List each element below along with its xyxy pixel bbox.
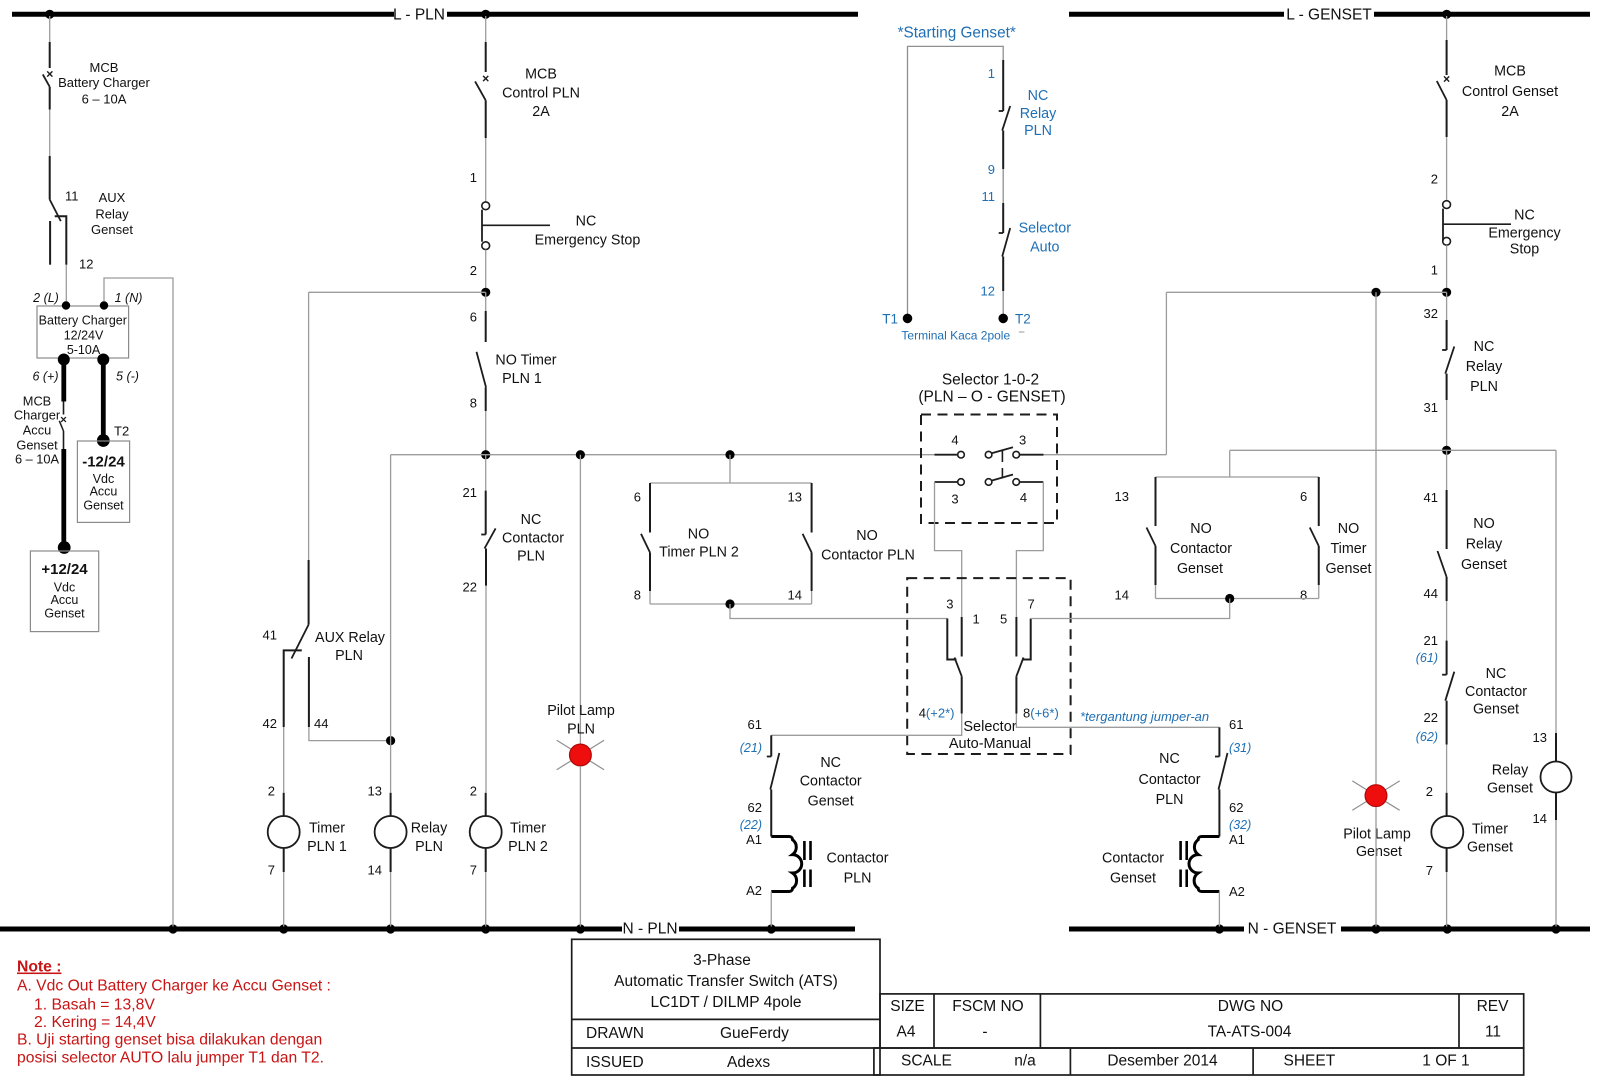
coil Relay Genset	[1555, 733, 1557, 762]
terminal circle row2 left pin 3	[958, 479, 965, 486]
svg-text:3: 3	[946, 597, 953, 612]
svg-text:PLN 2: PLN 2	[508, 839, 548, 855]
svg-text:32: 32	[1424, 306, 1438, 321]
svg-text:13: 13	[1533, 730, 1547, 745]
svg-text:Selector: Selector	[1019, 221, 1072, 237]
wire interconnect y292 to AUX Relay PLN	[309, 291, 486, 293]
wire NC Relay PLN genset to junction y450	[1446, 400, 1448, 450]
wire genset pair right lower stub	[1318, 585, 1320, 599]
node terminal dot +12/24	[58, 541, 71, 554]
svg-text:PLN: PLN	[517, 549, 545, 565]
svg-text:Battery Charger: Battery Charger	[58, 75, 150, 90]
wire selector row2 right lead	[1019, 481, 1043, 483]
svg-text:Stop: Stop	[1510, 242, 1539, 258]
contact NC Relay PLN genset 32-31	[1446, 320, 1448, 350]
svg-text:Contactor: Contactor	[1139, 772, 1201, 788]
coil Timer Genset	[1446, 793, 1448, 816]
svg-text:14: 14	[1533, 811, 1547, 826]
wire relay genset branch from y450	[1555, 450, 1557, 733]
svg-text:Selector 1-0-2: Selector 1-0-2	[942, 372, 1039, 389]
wire Contactor Genset A2 to N-GENSET bus	[1218, 892, 1220, 927]
wire genset pair left lower stub	[1155, 585, 1157, 599]
node dot N-GENSET / Pilot Lamp Genset	[1371, 924, 1380, 933]
svg-text:2A: 2A	[1501, 104, 1519, 120]
wire AUX Relay PLN common down	[308, 292, 310, 560]
svg-text:(31): (31)	[1229, 741, 1251, 755]
svg-text:Genset: Genset	[91, 222, 133, 237]
wire Relay PLN to N-PLN bus	[390, 872, 392, 927]
svg-text:ISSUED: ISSUED	[586, 1054, 644, 1071]
node dot N-PLN / battery charger neutral	[168, 924, 177, 933]
svg-text:+12/24: +12/24	[41, 561, 88, 578]
svg-text:Accu: Accu	[23, 423, 51, 438]
svg-text:Emergency: Emergency	[1488, 226, 1561, 242]
svg-text:Genset: Genset	[1356, 844, 1402, 860]
svg-text:2: 2	[470, 263, 477, 278]
wire NO Timer PLN 1 to junction y455	[485, 411, 487, 455]
contact NO Timer Genset pair	[1318, 477, 1320, 526]
svg-text:11: 11	[65, 188, 79, 203]
wire Pilot Lamp PLN to N-PLN bus	[579, 766, 581, 927]
svg-text:1 OF 1: 1 OF 1	[1422, 1053, 1469, 1070]
node dot N-PLN / Contactor PLN coil	[767, 924, 776, 933]
svg-text:2: 2	[470, 784, 477, 799]
svg-text:Contactor: Contactor	[1170, 541, 1232, 557]
svg-text:PLN 1: PLN 1	[502, 371, 542, 387]
svg-text:Contactor: Contactor	[800, 774, 862, 790]
node junction dot pair bottom	[725, 599, 734, 608]
svg-text:61: 61	[748, 717, 762, 732]
component box Battery Charger 12/24V 5-10A	[37, 306, 129, 358]
wire Emergency Stop Genset to junction	[1446, 245, 1448, 292]
titleblock main box	[572, 939, 880, 1075]
lamp Pilot Lamp PLN	[557, 740, 604, 769]
wire drop to NO Contactor Genset pair box	[1229, 450, 1231, 477]
wire pair box right lower stub	[811, 591, 813, 604]
svg-text:*Starting Genset*: *Starting Genset*	[898, 25, 1016, 42]
wire L-PLN bus left segment	[12, 12, 394, 17]
svg-text:Relay: Relay	[1466, 359, 1503, 375]
wire selector row2 left lead	[935, 481, 958, 483]
wire junction to NO Timer PLN 1	[485, 292, 487, 311]
wire selector row2 right exit down-jog	[1016, 482, 1043, 619]
coil Contactor PLN	[771, 837, 801, 892]
svg-text:Contactor: Contactor	[827, 851, 889, 867]
svg-text:1: 1	[973, 612, 980, 627]
wire Emergency Stop to junction	[485, 250, 487, 293]
node terminal T1	[903, 314, 913, 324]
node dot N-GENSET / Relay Genset	[1551, 924, 1560, 933]
svg-text:12: 12	[79, 257, 93, 272]
svg-text:AUX: AUX	[99, 190, 126, 205]
svg-text:PLN: PLN	[1156, 792, 1184, 808]
svg-text:FSCM NO: FSCM NO	[952, 998, 1023, 1015]
contact NO Relay Genset 41-44	[1446, 490, 1448, 549]
svg-text:Genset: Genset	[16, 438, 58, 453]
svg-text:Auto: Auto	[1030, 240, 1059, 256]
svg-text:Genset: Genset	[1473, 702, 1519, 718]
svg-text:MCB: MCB	[1494, 64, 1526, 80]
svg-text:T2: T2	[114, 424, 129, 439]
node junction dot genset line y292	[1442, 288, 1451, 297]
svg-text:3: 3	[951, 492, 958, 507]
wire horizontal y455 from Relay PLN branch to Selector 1-0-2	[391, 454, 935, 456]
svg-text:PLN 1: PLN 1	[307, 839, 347, 855]
svg-text:A1: A1	[1229, 832, 1245, 847]
wire N-GENSET bus left segment	[1069, 927, 1244, 932]
svg-text:A1: A1	[746, 832, 762, 847]
svg-text:Battery Charger: Battery Charger	[39, 314, 127, 328]
wire between starting contacts	[1002, 169, 1004, 203]
svg-text:11: 11	[982, 189, 996, 204]
wire Battery Charger 1(N) to N-PLN bus	[104, 278, 173, 927]
node junction dot y455 / NO Timer PLN 2 pair	[725, 450, 734, 459]
svg-text:Control Genset: Control Genset	[1462, 84, 1558, 100]
svg-text:Genset: Genset	[1461, 557, 1507, 573]
svg-text:4: 4	[951, 433, 958, 448]
svg-text:13: 13	[1115, 489, 1129, 504]
svg-text:(21): (21)	[740, 741, 762, 755]
node dot N-PLN / Relay PLN	[386, 924, 395, 933]
contact NO Contactor PLN	[811, 483, 813, 533]
svg-text:2: 2	[1431, 172, 1438, 187]
svg-text:6: 6	[1300, 489, 1307, 504]
contact NC Contactor Genset 21-22 main	[1446, 641, 1448, 675]
svg-text:Accu: Accu	[51, 593, 79, 607]
svg-text:SIZE: SIZE	[890, 998, 924, 1015]
svg-text:Contactor: Contactor	[502, 531, 564, 547]
svg-text:12: 12	[981, 284, 995, 299]
svg-text:NO: NO	[1190, 521, 1211, 537]
wire pilot lamp genset branch upper	[1375, 292, 1377, 784]
node dot N-PLN / Pilot Lamp PLN	[576, 924, 585, 933]
node dot N-GENSET / Timer Genset	[1443, 924, 1452, 933]
svg-text:NC: NC	[1159, 751, 1180, 767]
mechanical link selector	[1001, 451, 1003, 462]
wire 44 to Relay PLN branch	[309, 727, 391, 741]
svg-text:NC: NC	[1486, 666, 1507, 682]
svg-text:Relay: Relay	[1466, 537, 1503, 553]
svg-text:NC: NC	[820, 755, 841, 771]
svg-text:PLN: PLN	[567, 722, 595, 738]
contact NO Timer PLN 1	[485, 311, 487, 342]
svg-text:21: 21	[1424, 633, 1438, 648]
titleblock right header box	[880, 994, 1524, 1048]
svg-text:Relay: Relay	[1020, 106, 1057, 122]
svg-text:6 (+): 6 (+)	[32, 370, 58, 384]
svg-text:SHEET: SHEET	[1284, 1053, 1336, 1070]
svg-text:8: 8	[1300, 588, 1307, 603]
svg-text:Accu: Accu	[90, 485, 118, 499]
svg-text:(22): (22)	[740, 818, 762, 832]
svg-text:44: 44	[314, 716, 328, 731]
wire N-PLN bus right segment	[679, 927, 855, 932]
svg-text:TA-ATS-004: TA-ATS-004	[1208, 1024, 1292, 1041]
breaker MCB Control Genset 2A	[1446, 40, 1448, 75]
wire thick battery positive 6(+) down	[61, 360, 66, 402]
node junction dot PLN line / horizontal wire y455	[481, 450, 490, 459]
wire MCB Control PLN to Emergency Stop	[485, 138, 487, 202]
wire Pilot Lamp PLN branch upper	[579, 455, 581, 744]
wire junction to NO Relay Genset	[1446, 450, 1448, 490]
contact Selector Auto-Manual right 7-8	[1022, 619, 1031, 660]
svg-text:DWG NO: DWG NO	[1218, 998, 1283, 1015]
node junction dot 44 / Relay PLN branch	[386, 736, 395, 745]
wire AUX Relay Genset to Battery Charger 2(L)	[65, 265, 67, 302]
svg-text:3-Phase: 3-Phase	[693, 952, 751, 969]
wire thick battery negative 5(-) to T2	[101, 360, 106, 441]
contact NO Contactor Genset pair	[1155, 477, 1157, 526]
svg-text:62: 62	[1229, 800, 1243, 815]
svg-text:NC: NC	[1474, 339, 1495, 355]
wire y450 right interconnect	[1230, 449, 1556, 451]
svg-text:AUX Relay: AUX Relay	[315, 630, 386, 646]
svg-text:4: 4	[1020, 490, 1027, 505]
svg-text:(61): (61)	[1416, 651, 1438, 665]
svg-text:14: 14	[788, 588, 802, 603]
contact Selector Auto-Manual left 3-4	[947, 619, 956, 660]
wire Contactor PLN A2 to N-PLN bus	[770, 892, 772, 927]
svg-text:Adexs: Adexs	[727, 1054, 770, 1071]
wire Timer PLN 2 to N-PLN bus	[485, 872, 487, 927]
selector box Selector 1-0-2 dashed	[921, 415, 1057, 524]
svg-text:22: 22	[1424, 710, 1438, 725]
wire genset pair bottom to selector pin 7	[1031, 599, 1230, 619]
wire genset pair box top edge	[1156, 476, 1319, 478]
svg-text:NC: NC	[521, 512, 542, 528]
svg-text:6 – 10A: 6 – 10A	[82, 92, 127, 107]
svg-text:2: 2	[1426, 784, 1433, 799]
svg-text:1. Basah = 13,8V: 1. Basah = 13,8V	[34, 997, 155, 1014]
svg-text:7: 7	[1028, 597, 1035, 612]
svg-text:8(+6*): 8(+6*)	[1023, 706, 1059, 721]
wire from L-PLN bus to MCB Battery Charger	[49, 16, 51, 42]
svg-text:B. Uji starting genset bisa di: B. Uji starting genset bisa dilakukan de…	[17, 1032, 322, 1049]
contact AUX Relay Genset 11-12	[49, 156, 51, 200]
svg-text:Genset: Genset	[1325, 561, 1371, 577]
node junction dot y455 / Pilot Lamp PLN	[576, 450, 585, 459]
node dot N-GENSET / Contactor Genset coil	[1215, 924, 1224, 933]
svg-text:PLN: PLN	[1470, 379, 1498, 395]
svg-text:Auto-Manual: Auto-Manual	[949, 736, 1031, 752]
pushbutton NC Emergency Stop Genset	[1443, 201, 1451, 209]
svg-text:(62): (62)	[1416, 730, 1438, 744]
svg-text:1: 1	[470, 170, 477, 185]
selector box Selector Auto-Manual dashed	[907, 578, 1070, 754]
wire drop junction y455 to pair box	[729, 455, 731, 483]
wire pilot lamp genset to N-GENSET bus	[1375, 807, 1377, 927]
svg-text:T1: T1	[882, 312, 898, 327]
coil Timer PLN 2	[485, 793, 487, 816]
svg-text:14: 14	[368, 863, 382, 878]
svg-text:7: 7	[268, 863, 275, 878]
wire MCB Battery Charger to AUX Relay Genset	[49, 110, 51, 157]
terminal circle row1 left pin 4	[958, 451, 965, 458]
svg-text:Timer: Timer	[309, 821, 345, 837]
coil Relay PLN	[390, 793, 392, 816]
svg-text:PLN: PLN	[844, 871, 872, 887]
svg-text:Genset: Genset	[808, 794, 854, 810]
switch selector row1 common	[985, 451, 992, 458]
svg-text:2. Kering = 14,4V: 2. Kering = 14,4V	[34, 1014, 156, 1031]
svg-text:Genset: Genset	[1467, 840, 1513, 856]
svg-text:NO: NO	[1338, 521, 1359, 537]
svg-text:Automatic Transfer Switch (ATS: Automatic Transfer Switch (ATS)	[614, 973, 838, 990]
wire NC Contactor Genset to Timer Genset coil	[1446, 745, 1448, 793]
wire pair box bottom edge	[650, 603, 812, 605]
svg-text:posisi selector AUTO lalu jump: posisi selector AUTO lalu jumper T1 dan …	[17, 1050, 324, 1067]
wire Selector Auto-Manual left output to NC Contactor Genset branch	[771, 714, 961, 736]
svg-text:NO: NO	[1473, 516, 1494, 532]
wire vertical link x1166	[1165, 292, 1167, 454]
svg-text:Timer: Timer	[1472, 822, 1508, 838]
wire selector row1 right lead	[1019, 454, 1043, 456]
svg-text:PLN: PLN	[335, 648, 363, 664]
svg-text:MCB: MCB	[23, 394, 51, 409]
svg-text:Genset: Genset	[1110, 871, 1156, 887]
svg-text:5: 5	[1000, 612, 1007, 627]
contact NC Relay PLN starting	[1002, 60, 1004, 111]
contact AUX Relay PLN 41-42-44	[308, 560, 310, 625]
svg-text:1: 1	[988, 66, 995, 81]
coil Timer PLN 1	[283, 793, 285, 816]
wire selector row1 output right	[1044, 454, 1167, 456]
svg-text:62: 62	[748, 800, 762, 815]
wire starting genset loop	[908, 46, 1004, 314]
wire N-PLN bus left segment	[0, 927, 622, 932]
svg-text:Pilot Lamp: Pilot Lamp	[1343, 827, 1411, 843]
svg-text:8: 8	[634, 588, 641, 603]
svg-text:SCALE: SCALE	[901, 1053, 952, 1070]
node junction dot genset line y450	[1442, 446, 1451, 455]
wire to T2	[1002, 291, 1004, 314]
svg-text:22: 22	[463, 580, 477, 595]
svg-text:6 – 10A: 6 – 10A	[15, 452, 60, 467]
svg-text:LC1DT / DILMP 4pole: LC1DT / DILMP 4pole	[650, 994, 801, 1011]
wire MCB Control Genset to Emergency Stop Genset	[1446, 137, 1448, 201]
titleblock bottom row box	[874, 1048, 1524, 1075]
svg-text:44: 44	[1424, 586, 1438, 601]
svg-text:14: 14	[1115, 588, 1129, 603]
svg-text:5-10A: 5-10A	[67, 343, 101, 357]
breaker MCB Battery Charger 6-10A	[49, 42, 51, 68]
contact NC Contactor PLN 61-62 right	[1218, 727, 1220, 756]
svg-text:NC: NC	[1514, 208, 1535, 224]
svg-text:2A: 2A	[532, 104, 550, 120]
svg-text:A4: A4	[897, 1024, 916, 1041]
node terminal dot T2	[97, 434, 110, 447]
svg-text:Genset: Genset	[1487, 781, 1533, 797]
svg-text:NC: NC	[1028, 88, 1049, 104]
svg-text:13: 13	[368, 784, 382, 799]
svg-text:3: 3	[1019, 433, 1026, 448]
svg-text:Genset: Genset	[44, 607, 85, 621]
wire Selector Auto-Manual right output to NC Contactor PLN branch	[1016, 714, 1219, 728]
svg-text:Relay: Relay	[95, 207, 129, 222]
contact NO Timer PLN 2	[649, 483, 651, 533]
wire L-GENSET bus to MCB Control Genset	[1446, 16, 1448, 40]
svg-text:Relay: Relay	[411, 821, 448, 837]
lamp Pilot Lamp Genset	[1352, 781, 1399, 810]
contact NC Contactor Genset 61-62	[770, 735, 772, 756]
svg-text:MCB: MCB	[90, 60, 119, 75]
wire Timer PLN 1 to N-PLN bus	[283, 872, 285, 927]
wire N-GENSET bus right segment	[1341, 927, 1590, 932]
svg-text:T2: T2	[1015, 312, 1031, 327]
wire thick battery positive to +12/24 terminal	[61, 449, 66, 548]
wire selector row1 left lead	[935, 454, 958, 456]
svg-text:Desember 2014: Desember 2014	[1107, 1053, 1218, 1070]
svg-text:1 (N): 1 (N)	[115, 291, 143, 305]
switch selector row2 common	[985, 479, 992, 486]
svg-text:Genset: Genset	[83, 499, 124, 513]
svg-text:8: 8	[470, 396, 477, 411]
svg-text:Timer PLN 2: Timer PLN 2	[659, 545, 739, 561]
wire Timer Genset to N-GENSET bus	[1446, 872, 1448, 927]
wire L-PLN bus to MCB Control PLN	[485, 16, 487, 42]
svg-text:DRAWN: DRAWN	[586, 1025, 644, 1042]
svg-text:1: 1	[1431, 263, 1438, 278]
svg-text:11: 11	[1485, 1024, 1501, 1041]
svg-text:NC: NC	[576, 214, 597, 230]
svg-text:2: 2	[268, 784, 275, 799]
pushbutton NC Emergency Stop PLN	[482, 202, 490, 210]
svg-text:Emergency Stop: Emergency Stop	[535, 233, 641, 249]
component box -12/24 Vdc Accu Genset	[77, 441, 129, 522]
svg-text:Timer: Timer	[510, 821, 546, 837]
wire 42 to Timer PLN 1 coil	[283, 727, 285, 793]
svg-text:4(+2*): 4(+2*)	[919, 706, 955, 721]
svg-text:42: 42	[263, 716, 277, 731]
svg-text:Control PLN: Control PLN	[502, 86, 580, 102]
node junction dot L-PLN / MCB Control PLN	[481, 10, 490, 19]
svg-text:Contactor: Contactor	[1102, 851, 1164, 867]
wire selector row2 left exit down-jog	[935, 482, 962, 619]
wire relay genset to N-GENSET bus	[1555, 820, 1557, 927]
wire Relay PLN branch from y455	[390, 455, 392, 793]
svg-text:Pilot Lamp: Pilot Lamp	[547, 703, 615, 719]
node junction dot L-PLN / battery charger feed	[45, 10, 54, 19]
svg-text:REV: REV	[1477, 998, 1510, 1015]
svg-text:*tergantung jumper-an: *tergantung jumper-an	[1080, 709, 1209, 724]
wire pair box left lower stub	[649, 591, 651, 604]
wire genset pair bottom edge	[1156, 598, 1319, 600]
svg-text:41: 41	[263, 628, 277, 643]
svg-text:Relay: Relay	[1492, 763, 1529, 779]
svg-text:MCB: MCB	[525, 67, 557, 83]
svg-text:L - PLN: L - PLN	[393, 7, 445, 24]
svg-text:(32): (32)	[1229, 818, 1251, 832]
component box +12/24 Vdc Accu Genset	[30, 551, 98, 632]
svg-text:A2: A2	[1229, 884, 1245, 899]
breaker MCB Charger Accu Genset 6-10A	[63, 402, 65, 415]
svg-text:9: 9	[988, 162, 995, 177]
contact NC Contactor PLN 21-22	[485, 491, 487, 535]
svg-text:2 (L): 2 (L)	[32, 291, 59, 305]
wire junction to NC Contactor PLN	[485, 455, 487, 491]
svg-text:7: 7	[1426, 863, 1433, 878]
svg-text:41: 41	[1424, 490, 1438, 505]
svg-text:Timer: Timer	[1330, 541, 1366, 557]
svg-text:Contactor: Contactor	[1465, 684, 1527, 700]
svg-text:13: 13	[788, 490, 802, 505]
svg-text:-12/24: -12/24	[82, 454, 125, 471]
svg-text:(PLN – O - GENSET): (PLN – O - GENSET)	[918, 389, 1065, 406]
svg-text:6: 6	[470, 310, 477, 325]
svg-text:6: 6	[634, 490, 641, 505]
svg-text:NO: NO	[856, 528, 877, 544]
wire NO Relay Genset to NC Contactor Genset	[1446, 601, 1448, 641]
